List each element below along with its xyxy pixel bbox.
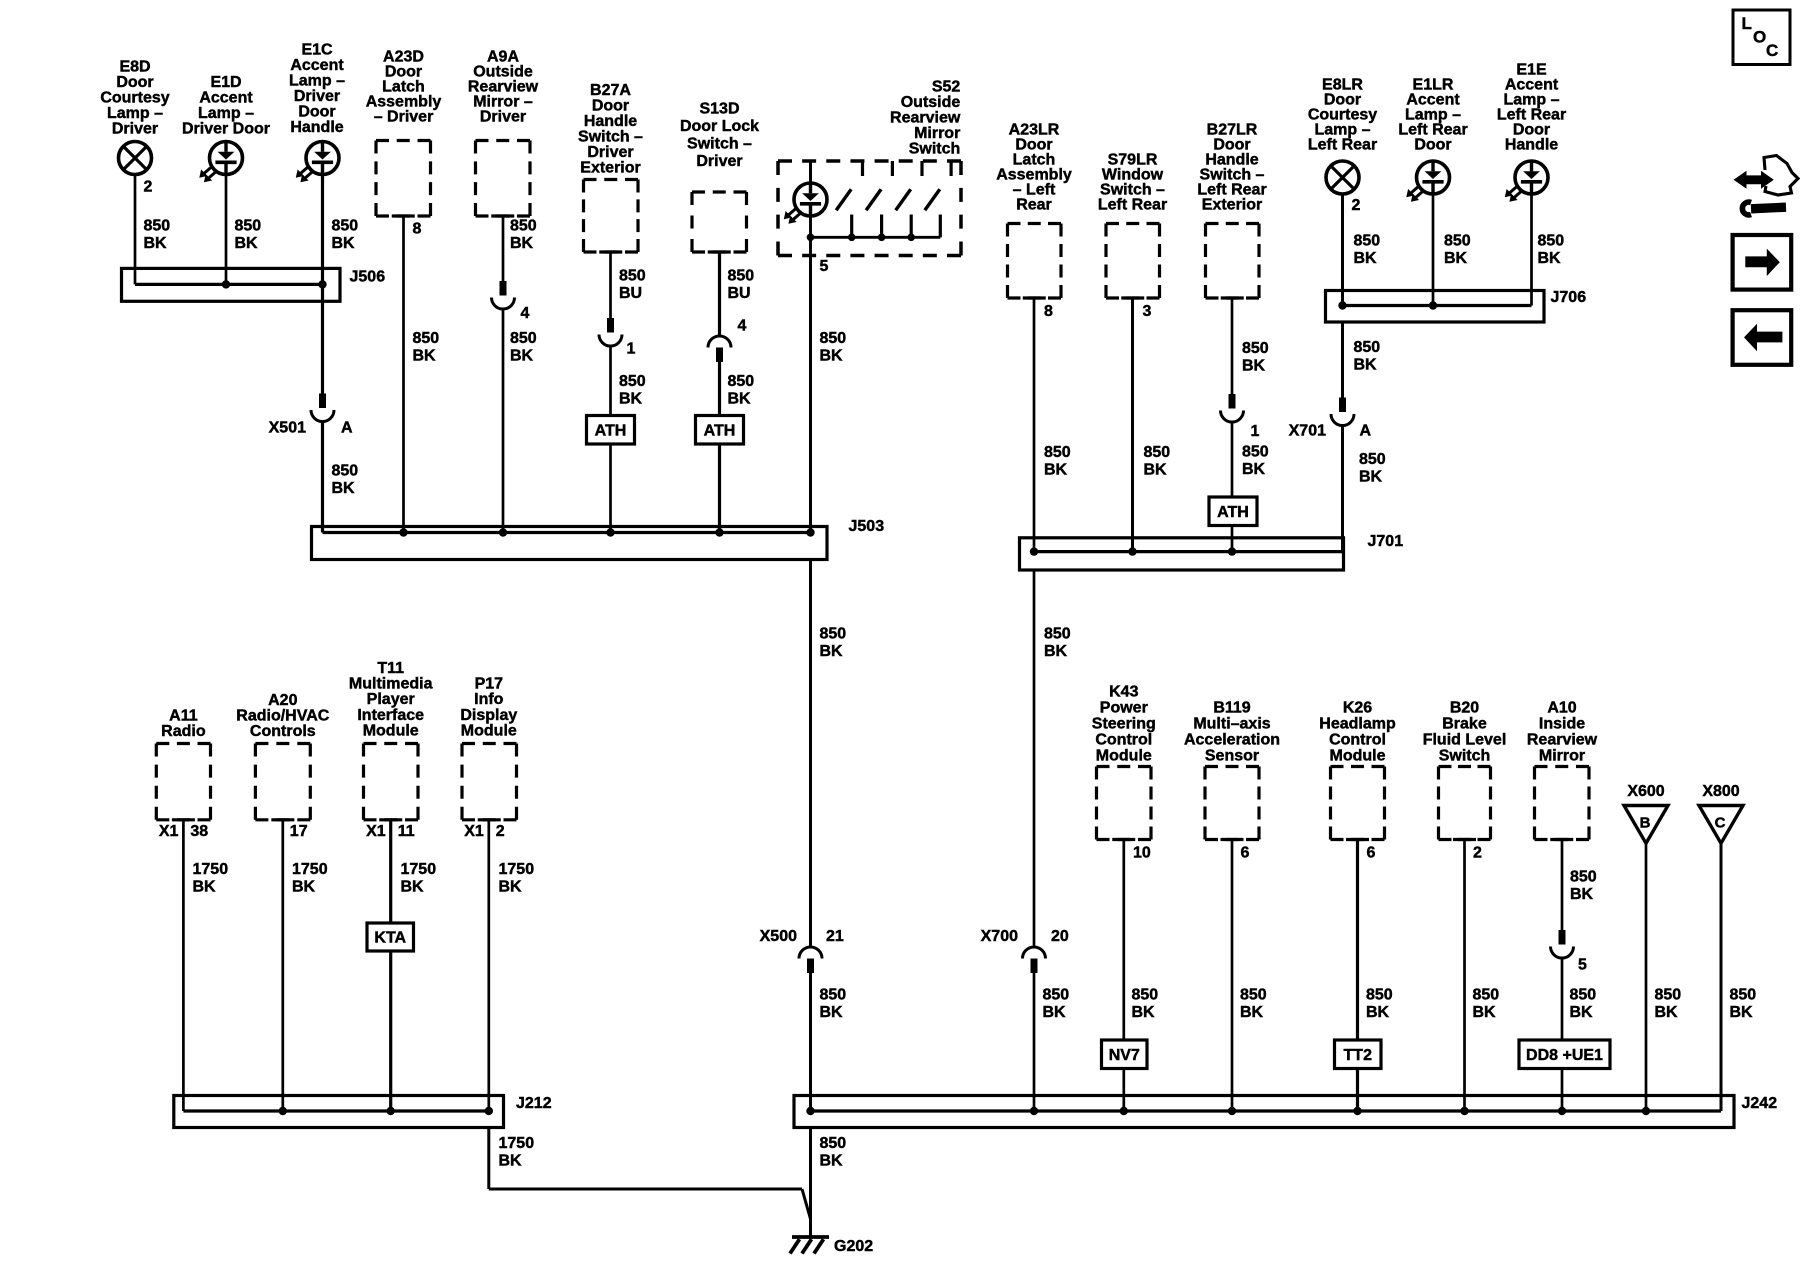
svg-text:Lamp –: Lamp – (289, 73, 345, 90)
svg-text:Rear: Rear (1016, 197, 1052, 214)
svg-text:850: 850 (1144, 444, 1171, 461)
svg-text:850: 850 (1655, 987, 1682, 1004)
wire S13D, 850 BU (718, 252, 721, 336)
LED lamp E1C (306, 142, 339, 175)
svg-text:ATH: ATH (704, 422, 736, 439)
svg-text:2: 2 (496, 823, 505, 840)
svg-text:850: 850 (1043, 987, 1070, 1004)
svg-text:6: 6 (1241, 845, 1250, 862)
svg-text:BK: BK (820, 348, 844, 365)
svg-text:Door Lock: Door Lock (680, 118, 759, 135)
svg-text:J503: J503 (849, 518, 885, 535)
svg-text:1750: 1750 (292, 861, 328, 878)
svg-text:Switch –: Switch – (687, 136, 752, 153)
splice DD8 +UE1 (1519, 1040, 1610, 1069)
module S13D dashed box (692, 190, 747, 193)
wire ATH to J701 (1231, 526, 1234, 552)
splice KTA (367, 923, 414, 951)
inline connector pin 4 on A9A wire (500, 281, 507, 296)
svg-text:850: 850 (510, 218, 537, 235)
svg-text:A: A (341, 420, 353, 437)
svg-text:850: 850 (1366, 987, 1393, 1004)
svg-text:Interface: Interface (357, 707, 424, 724)
switch assembly S52 dashed box (778, 159, 961, 163)
svg-text:17: 17 (290, 823, 308, 840)
wire E1E to J706, 850 BK (1530, 194, 1533, 306)
wire A10 upper, 850 BK (1561, 840, 1564, 931)
svg-text:BK: BK (193, 879, 217, 896)
svg-text:Module: Module (1096, 748, 1152, 765)
svg-text:A: A (1360, 423, 1372, 440)
svg-text:K43: K43 (1109, 684, 1138, 701)
ground G202 (792, 1235, 829, 1239)
svg-text:Module: Module (461, 723, 517, 740)
wire K26 to TT2 splice, 850 BK (1356, 840, 1359, 1041)
wire A10 to DD8 splice, 850 BK (1561, 958, 1564, 1040)
svg-text:BK: BK (1366, 1004, 1390, 1021)
module K26 dashed box (1331, 765, 1385, 768)
svg-text:BK: BK (1354, 250, 1378, 267)
module B27A dashed box (584, 178, 639, 181)
svg-text:BK: BK (1044, 643, 1068, 660)
svg-text:BK: BK (1132, 1004, 1156, 1021)
svg-text:Exterior: Exterior (1202, 197, 1262, 214)
svg-text:Control: Control (1329, 732, 1386, 749)
svg-text:X500: X500 (760, 928, 797, 945)
svg-text:Handle: Handle (290, 119, 343, 136)
svg-text:850: 850 (1570, 987, 1597, 1004)
svg-text:X700: X700 (981, 928, 1018, 945)
wire DD8 to J242 (1561, 1069, 1564, 1112)
svg-text:Power: Power (1100, 700, 1148, 717)
wire P17 to J212, 1750 BK (487, 820, 490, 1111)
svg-text:10: 10 (1133, 845, 1151, 862)
internal bus of S52 (811, 236, 941, 239)
svg-text:850: 850 (1242, 444, 1269, 461)
wire S52 column J503 to X500, 850 BK (809, 560, 812, 948)
svg-text:2: 2 (144, 179, 153, 196)
svg-text:850: 850 (332, 463, 359, 480)
svg-text:20: 20 (1051, 928, 1069, 945)
svg-text:BK: BK (1538, 250, 1562, 267)
wire NV7 to J242 (1122, 1069, 1125, 1112)
wire A23LR column J701 to X700, 850 BK (1033, 570, 1036, 947)
svg-text:E1C: E1C (301, 42, 333, 59)
svg-text:J706: J706 (1551, 289, 1587, 306)
svg-text:BK: BK (499, 879, 523, 896)
svg-text:Player: Player (367, 691, 415, 708)
svg-text:850: 850 (1240, 987, 1267, 1004)
svg-text:X1: X1 (366, 823, 386, 840)
splice NV7 (1102, 1040, 1148, 1069)
wire KTA to J212 (389, 951, 392, 1111)
wire A23D to J503, 850 BK (402, 216, 405, 533)
svg-text:850: 850 (1538, 233, 1565, 250)
svg-text:Driver Door: Driver Door (182, 121, 270, 138)
svg-text:BK: BK (1144, 462, 1168, 479)
svg-text:BK: BK (1570, 1004, 1594, 1021)
wire S52 to J503, 850 BK (809, 256, 812, 533)
svg-text:Lamp –: Lamp – (107, 105, 163, 122)
wire X800 to J242, 850 BK (1720, 843, 1723, 1111)
wire X500 to J242, 850 BK (809, 973, 812, 1111)
forward arrow legend box (1733, 235, 1792, 290)
svg-text:Door: Door (116, 74, 153, 91)
module A9A dashed box (476, 139, 531, 142)
svg-text:BK: BK (1242, 461, 1266, 478)
svg-text:Acceleration: Acceleration (1184, 732, 1280, 749)
module S79LR dashed box (1106, 222, 1160, 225)
svg-text:KTA: KTA (374, 930, 406, 947)
svg-text:850: 850 (1132, 987, 1159, 1004)
module A10 dashed box (1535, 765, 1590, 768)
wire J706 to X701, 850 BK (1341, 322, 1344, 398)
svg-text:850: 850 (510, 330, 537, 347)
svg-text:Control: Control (1095, 732, 1152, 749)
wire E1LR to J706, 850 BK (1432, 194, 1435, 306)
svg-text:Door: Door (298, 104, 335, 121)
junction block J503 (312, 527, 828, 560)
wire E8LR to J706, 850 BK (1341, 194, 1344, 306)
svg-text:– Driver: – Driver (374, 109, 434, 126)
module T11 dashed box (364, 742, 419, 745)
svg-text:BK: BK (1240, 1004, 1264, 1021)
wire TT2 to J242 (1356, 1069, 1359, 1112)
svg-text:2: 2 (1352, 197, 1361, 214)
inline connector X701 pin A (1339, 398, 1346, 413)
svg-text:850: 850 (1354, 339, 1381, 356)
svg-text:38: 38 (190, 823, 208, 840)
svg-text:Handle: Handle (584, 113, 637, 130)
svg-text:Exterior: Exterior (580, 160, 640, 177)
wire to ATH splice, 850 BK (1231, 422, 1234, 497)
svg-text:BK: BK (1444, 250, 1468, 267)
svg-text:L: L (1742, 14, 1752, 33)
module A23D dashed box (376, 139, 431, 142)
svg-text:Handle: Handle (1505, 137, 1558, 154)
svg-text:G202: G202 (834, 1238, 873, 1255)
svg-text:21: 21 (826, 928, 844, 945)
svg-text:J242: J242 (1742, 1095, 1778, 1112)
svg-text:S52: S52 (932, 79, 961, 96)
wire E8D to J506, 850 BK (134, 175, 137, 285)
wire A20 to J212, 1750 BK (281, 820, 284, 1111)
svg-text:850: 850 (1473, 987, 1500, 1004)
wire ATH to J503 (718, 444, 721, 533)
splice TT2 (1335, 1040, 1382, 1069)
splice ATH (B27LR branch) (1209, 497, 1257, 526)
svg-text:1: 1 (627, 341, 636, 358)
LOC legend box (1733, 10, 1790, 65)
svg-text:850: 850 (820, 626, 847, 643)
svg-text:850: 850 (820, 1135, 847, 1152)
svg-text:X1: X1 (464, 823, 484, 840)
svg-text:C: C (1766, 41, 1778, 60)
svg-text:2: 2 (1473, 845, 1482, 862)
svg-text:3: 3 (1143, 303, 1152, 320)
svg-text:Module: Module (363, 723, 419, 740)
svg-text:Display: Display (460, 707, 517, 724)
inline connector pin 5 on A10 wire (1559, 930, 1566, 945)
svg-text:850: 850 (413, 330, 440, 347)
svg-text:BK: BK (413, 348, 437, 365)
splice ATH (B27A branch) (587, 416, 635, 445)
svg-text:Left Rear: Left Rear (1098, 197, 1167, 214)
wire X600 to J242, 850 BK (1645, 843, 1648, 1111)
wire J242 to ground G202, 850 BK (809, 1128, 812, 1238)
svg-text:Steering: Steering (1092, 716, 1156, 733)
svg-text:BK: BK (510, 348, 534, 365)
wire J212 output 1750 BK to ground run (487, 1128, 490, 1190)
svg-text:Mirror: Mirror (914, 125, 960, 142)
svg-text:S13D: S13D (699, 101, 739, 118)
svg-text:A10: A10 (1547, 700, 1576, 717)
svg-text:Radio: Radio (161, 723, 206, 740)
inline connector pin 1 on B27LR wire (1229, 394, 1236, 409)
wire B20 to J242, 850 BK (1463, 840, 1466, 1112)
svg-text:X800: X800 (1702, 783, 1739, 800)
svg-text:Inside: Inside (1539, 716, 1585, 733)
svg-text:850: 850 (1354, 233, 1381, 250)
wire A9A upper segment, 850 BK (502, 216, 505, 281)
svg-text:BK: BK (1473, 1004, 1497, 1021)
service tool icon (double arrow with door outline and wrench) (1734, 156, 1798, 215)
svg-text:B27A: B27A (590, 82, 631, 99)
svg-text:BK: BK (235, 235, 259, 252)
svg-text:Rearview: Rearview (890, 110, 961, 127)
svg-text:8: 8 (413, 221, 422, 238)
svg-text:850: 850 (820, 330, 847, 347)
wire T11 to KTA splice, 1750 BK (389, 820, 392, 923)
svg-text:ATH: ATH (1217, 504, 1249, 521)
svg-text:Switch: Switch (909, 141, 961, 158)
svg-text:1750: 1750 (193, 861, 229, 878)
svg-text:Fluid Level: Fluid Level (1423, 732, 1507, 749)
wire E1D to J506, 850 BK (225, 175, 228, 285)
svg-text:Switch: Switch (1439, 748, 1491, 765)
svg-text:BK: BK (1354, 357, 1378, 374)
wire S79LR to J701, 850 BK (1131, 298, 1134, 552)
svg-text:4: 4 (521, 305, 530, 322)
svg-text:P17: P17 (475, 676, 504, 693)
svg-text:BK: BK (144, 235, 168, 252)
svg-text:11: 11 (398, 823, 415, 840)
svg-text:850: 850 (728, 268, 755, 285)
svg-text:B119: B119 (1213, 700, 1250, 717)
svg-text:BK: BK (1044, 462, 1068, 479)
svg-text:850: 850 (619, 373, 646, 390)
svg-text:BK: BK (292, 879, 316, 896)
module A23LR dashed box (1008, 222, 1062, 225)
svg-text:1750: 1750 (499, 861, 535, 878)
svg-text:Driver: Driver (480, 109, 526, 126)
svg-text:8: 8 (1044, 303, 1053, 320)
svg-text:Driver: Driver (587, 144, 633, 161)
svg-text:O: O (1753, 28, 1766, 47)
svg-text:850: 850 (235, 218, 262, 235)
svg-text:1750: 1750 (401, 861, 437, 878)
svg-text:X501: X501 (269, 420, 306, 437)
junction block J242 (794, 1096, 1734, 1128)
LED lamp E1LR (1417, 161, 1450, 194)
svg-text:J701: J701 (1368, 533, 1404, 550)
wire A23LR to J701, 850 BK (1033, 298, 1036, 552)
svg-text:Module: Module (1330, 748, 1386, 765)
splice ATH (S13D branch) (696, 416, 744, 445)
svg-text:Controls: Controls (250, 723, 316, 740)
junction block J701 (1020, 538, 1344, 570)
svg-text:850: 850 (820, 987, 847, 1004)
svg-text:850: 850 (1359, 451, 1386, 468)
svg-text:BK: BK (820, 1004, 844, 1021)
svg-text:BK: BK (499, 1153, 523, 1170)
svg-text:Radio/HVAC: Radio/HVAC (236, 708, 329, 725)
junction block J506 (122, 268, 341, 301)
svg-text:BK: BK (332, 235, 356, 252)
svg-text:Sensor: Sensor (1205, 748, 1259, 765)
junction block J212 (174, 1096, 504, 1128)
svg-text:E8D: E8D (119, 59, 150, 76)
svg-text:Driver: Driver (112, 121, 158, 138)
svg-text:Headlamp: Headlamp (1319, 716, 1396, 733)
svg-text:Info: Info (474, 691, 504, 708)
svg-text:A11: A11 (169, 708, 198, 725)
svg-text:X701: X701 (1289, 423, 1326, 440)
svg-text:Driver: Driver (294, 88, 340, 105)
svg-text:BK: BK (401, 879, 425, 896)
svg-text:X600: X600 (1627, 783, 1664, 800)
wire K43 to NV7 splice, 850 BK (1122, 840, 1125, 1041)
svg-text:Driver: Driver (696, 153, 742, 170)
wire X501 to J503, 850 BK (321, 422, 324, 533)
wire B119 to J242, 850 BK (1231, 840, 1234, 1112)
svg-text:BK: BK (1043, 1004, 1067, 1021)
wire to ATH splice, 850 BK (718, 362, 721, 416)
svg-text:Multimedia: Multimedia (349, 676, 433, 693)
svg-text:850: 850 (1242, 340, 1269, 357)
wire A9A to J503, 850 BK (502, 309, 505, 533)
svg-text:850: 850 (144, 218, 171, 235)
wire X700 to J242, 850 BK (1033, 973, 1036, 1111)
svg-text:6: 6 (1367, 845, 1376, 862)
svg-text:Left Rear: Left Rear (1308, 137, 1377, 154)
svg-text:X1: X1 (159, 823, 179, 840)
svg-text:5: 5 (1578, 957, 1587, 974)
mirror switch contacts in S52 (861, 161, 864, 176)
lamp E8D (circle-X symbol) (119, 142, 152, 175)
svg-text:BK: BK (1570, 886, 1594, 903)
svg-text:J212: J212 (516, 1095, 552, 1112)
module K43 dashed box (1097, 765, 1152, 768)
svg-text:850: 850 (332, 218, 359, 235)
svg-text:E1D: E1D (210, 74, 241, 91)
svg-text:850: 850 (728, 373, 755, 390)
svg-text:A20: A20 (268, 692, 297, 709)
svg-text:Lamp –: Lamp – (198, 105, 254, 122)
wire B27LR, 850 BK (1231, 298, 1234, 394)
svg-text:Outside: Outside (901, 94, 961, 111)
svg-text:DD8 +UE1: DD8 +UE1 (1526, 1047, 1603, 1064)
svg-text:Rearview: Rearview (1527, 732, 1598, 749)
svg-text:850: 850 (619, 268, 646, 285)
backward arrow legend box (1733, 310, 1792, 365)
junction block J706 (1326, 291, 1545, 323)
svg-text:TT2: TT2 (1344, 1047, 1373, 1064)
svg-text:T11: T11 (377, 660, 404, 677)
svg-text:BK: BK (1730, 1004, 1754, 1021)
module B27LR dashed box (1206, 222, 1260, 225)
svg-text:J506: J506 (350, 269, 386, 286)
LED lamp inside S52 (809, 161, 812, 183)
wire X701 to J701, 850 BK (1341, 426, 1344, 552)
svg-text:Mirror: Mirror (1539, 748, 1585, 765)
svg-text:ATH: ATH (595, 422, 627, 439)
wire ATH to J503 (609, 444, 612, 533)
svg-text:850: 850 (1570, 869, 1597, 886)
LED lamp E1E (1515, 161, 1548, 194)
wire E1C through J506 down to X501, 850 BK (321, 175, 324, 394)
svg-text:BK: BK (728, 391, 752, 408)
svg-text:NV7: NV7 (1109, 1047, 1140, 1064)
svg-text:BK: BK (820, 1153, 844, 1170)
LED lamp E1D (210, 142, 243, 175)
svg-text:C: C (1715, 815, 1726, 832)
svg-text:Door: Door (1414, 137, 1451, 154)
module A20 dashed box (255, 742, 310, 745)
svg-text:Door: Door (592, 98, 629, 115)
module P17 dashed box (462, 742, 517, 745)
svg-text:850: 850 (1444, 233, 1471, 250)
svg-text:K26: K26 (1343, 700, 1372, 717)
svg-text:BK: BK (510, 235, 534, 252)
svg-text:5: 5 (820, 258, 829, 275)
svg-text:Courtesy: Courtesy (100, 90, 169, 107)
wire A11 to J212, 1750 BK (182, 820, 185, 1111)
svg-text:850: 850 (1044, 444, 1071, 461)
wire B27A, 850 BU (609, 252, 612, 318)
svg-text:BK: BK (820, 643, 844, 660)
svg-text:850: 850 (1044, 626, 1071, 643)
svg-text:1: 1 (1251, 423, 1260, 440)
svg-text:850: 850 (1730, 987, 1757, 1004)
inline connector X501 pin A (319, 394, 326, 409)
svg-text:Brake: Brake (1442, 716, 1487, 733)
svg-text:1750: 1750 (499, 1135, 535, 1152)
svg-text:Multi–axis: Multi–axis (1193, 716, 1270, 733)
module B119 dashed box (1205, 765, 1259, 768)
svg-text:BK: BK (1242, 358, 1266, 375)
svg-text:BK: BK (332, 480, 356, 497)
module B20 dashed box (1439, 765, 1491, 768)
svg-text:BU: BU (619, 285, 642, 302)
svg-text:4: 4 (738, 318, 747, 335)
svg-text:BK: BK (1655, 1004, 1679, 1021)
svg-text:B20: B20 (1450, 700, 1479, 717)
svg-text:BU: BU (728, 285, 751, 302)
lamp E8LR (circle-X symbol) (1326, 161, 1359, 194)
svg-text:BK: BK (1359, 469, 1383, 486)
svg-text:B: B (1640, 815, 1651, 832)
module A11 dashed box (156, 742, 210, 745)
wire to ATH splice, 850 BK (609, 346, 612, 416)
inline connector pin 1 on B27A wire (607, 318, 614, 333)
svg-text:Accent: Accent (199, 90, 253, 107)
svg-text:BK: BK (619, 391, 643, 408)
svg-text:Switch –: Switch – (578, 129, 643, 146)
svg-text:Accent: Accent (290, 57, 344, 74)
